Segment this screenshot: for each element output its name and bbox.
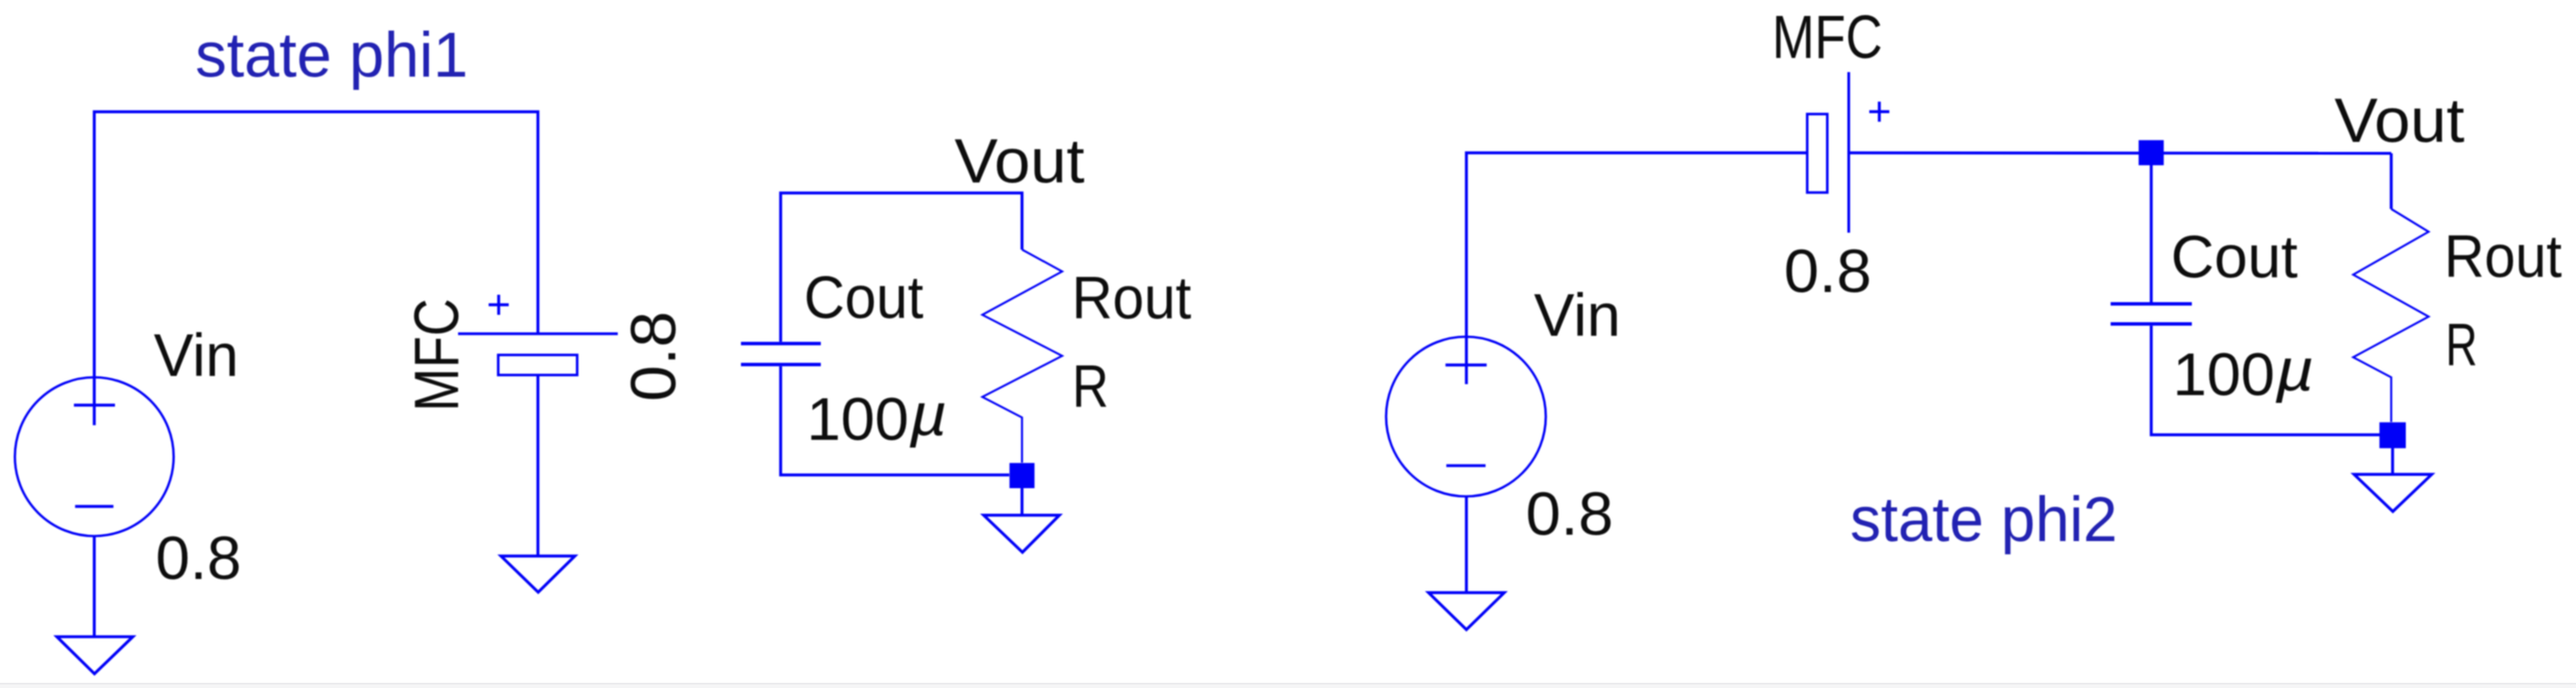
svg-text:state phi1: state phi1 bbox=[195, 19, 468, 90]
svg-text:Cout: Cout bbox=[804, 264, 923, 331]
svg-text:0.8: 0.8 bbox=[1784, 237, 1872, 306]
svg-text:µ: µ bbox=[2275, 336, 2314, 403]
svg-text:Cout: Cout bbox=[2171, 223, 2298, 290]
svg-text:100: 100 bbox=[2173, 340, 2275, 408]
svg-text:100: 100 bbox=[807, 385, 909, 453]
svg-text:Vin: Vin bbox=[1534, 281, 1621, 349]
svg-text:0.8: 0.8 bbox=[1526, 480, 1613, 548]
svg-text:Vout: Vout bbox=[954, 126, 1085, 196]
svg-text:R: R bbox=[1072, 352, 1109, 420]
svg-text:µ: µ bbox=[909, 380, 947, 448]
svg-text:0.8: 0.8 bbox=[618, 311, 689, 401]
svg-text:MFC: MFC bbox=[402, 298, 472, 412]
svg-text:state phi2: state phi2 bbox=[1851, 484, 2118, 555]
svg-text:Vin: Vin bbox=[154, 321, 239, 389]
svg-text:0.8: 0.8 bbox=[156, 525, 242, 593]
svg-text:Vout: Vout bbox=[2334, 85, 2465, 155]
svg-text:R: R bbox=[2446, 311, 2477, 379]
svg-text:Rout: Rout bbox=[2445, 223, 2562, 290]
svg-text:MFC: MFC bbox=[1772, 4, 1882, 72]
svg-text:Rout: Rout bbox=[1072, 264, 1192, 331]
